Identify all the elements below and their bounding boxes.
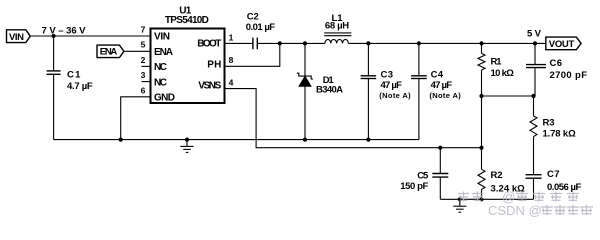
svg-text:5 V: 5 V xyxy=(527,28,542,39)
diode D1 B340A schottky xyxy=(297,43,343,139)
svg-text:7: 7 xyxy=(141,24,146,34)
svg-text:6: 6 xyxy=(141,85,146,95)
junction R2 bottom xyxy=(479,197,483,201)
ground rail xyxy=(54,139,419,141)
svg-text:150 pF: 150 pF xyxy=(400,181,428,192)
junction 5V / C6 top xyxy=(533,41,537,45)
wire BOOT pin 1 to C2 xyxy=(225,42,253,44)
watermark csdn line xyxy=(488,203,593,218)
junction C3 bottom on ground rail xyxy=(366,138,370,142)
net label VIN xyxy=(7,30,31,43)
svg-text:4: 4 xyxy=(229,78,234,88)
svg-text:2: 2 xyxy=(141,55,146,65)
svg-text:7 V – 36 V: 7 V – 36 V xyxy=(42,26,87,37)
pin 2 number and NC stub xyxy=(141,55,151,67)
junction R2 top xyxy=(479,146,483,150)
capacitor C5 xyxy=(400,148,448,200)
svg-text:C4: C4 xyxy=(431,69,444,80)
svg-text:0.056 µF: 0.056 µF xyxy=(547,182,581,193)
wire bottom ground line xyxy=(440,198,533,200)
junction C3 top xyxy=(366,41,370,45)
pin 3 number and NC stub xyxy=(141,70,151,82)
svg-text:R1: R1 xyxy=(491,57,503,68)
junction C4 top xyxy=(417,41,421,45)
junction pin6 wire on ground rail xyxy=(119,138,123,142)
svg-text:10 kΩ: 10 kΩ xyxy=(491,68,515,79)
IC U1 TPS5410D xyxy=(151,5,225,103)
svg-text:B340A: B340A xyxy=(316,84,343,95)
wire pin 6 GND to ground rail xyxy=(121,97,151,140)
svg-text:C2: C2 xyxy=(247,11,259,22)
svg-text:(Note A): (Note A) xyxy=(379,91,411,100)
wire VIN to pin 7 xyxy=(30,35,150,37)
wire ENA to pin 5 xyxy=(124,50,151,52)
svg-text:NC: NC xyxy=(154,62,167,73)
svg-text:PH: PH xyxy=(207,59,221,70)
node VIN input junction xyxy=(52,34,56,38)
svg-text:C6: C6 xyxy=(550,58,563,69)
junction C6 bottom / R3 top xyxy=(531,94,535,98)
watermark zhihu line xyxy=(458,190,579,205)
ground symbol main xyxy=(180,138,193,153)
svg-text:ENA: ENA xyxy=(100,47,118,58)
svg-text:5: 5 xyxy=(141,40,146,50)
wire C2 to L1 xyxy=(257,42,325,44)
svg-text:(Note A): (Note A) xyxy=(429,91,461,100)
resistor R3 1.78k xyxy=(530,96,576,174)
svg-text:TPS5410D: TPS5410D xyxy=(165,15,209,26)
svg-text:ENA: ENA xyxy=(154,47,173,58)
junction R1 top xyxy=(479,41,483,45)
svg-text:47 µF: 47 µF xyxy=(431,80,453,91)
svg-text:47 µF: 47 µF xyxy=(381,80,403,91)
svg-text:4.7 µF: 4.7 µF xyxy=(67,81,93,92)
svg-text:2700 pF: 2700 pF xyxy=(550,70,588,81)
svg-text:8: 8 xyxy=(229,55,234,65)
junction C5 top xyxy=(438,146,442,150)
capacitor C4 xyxy=(411,43,461,139)
svg-text:VIN: VIN xyxy=(9,32,24,43)
wire VSNS pin 4 to feedback node xyxy=(225,89,482,148)
junction D1 anode on ground rail xyxy=(303,138,307,142)
svg-text:0.01 µF: 0.01 µF xyxy=(246,22,276,33)
svg-text:BOOT: BOOT xyxy=(197,39,221,50)
net label VOUT xyxy=(546,37,581,50)
svg-text:1.78 kΩ: 1.78 kΩ xyxy=(543,129,577,140)
capacitor C3 xyxy=(361,43,411,139)
ground symbol feedback xyxy=(453,197,466,212)
net label ENA xyxy=(97,45,124,58)
junction D1 cathode at PH node xyxy=(303,41,307,45)
resistor R2 3.24k xyxy=(478,148,525,200)
wire FB node down to VSNS line xyxy=(481,96,483,148)
capacitor C6 xyxy=(526,43,587,96)
svg-text:68 µH: 68 µH xyxy=(325,21,349,32)
svg-text:R3: R3 xyxy=(543,117,555,128)
svg-text:VOUT: VOUT xyxy=(549,39,575,50)
svg-text:CSDN @: CSDN @ xyxy=(488,203,542,218)
capacitor C7 xyxy=(526,169,582,199)
junction C2/PH node xyxy=(278,41,282,45)
svg-text:C3: C3 xyxy=(381,69,394,80)
svg-text:VSNS: VSNS xyxy=(198,81,221,92)
wire feedback upper (R1 bottom to R3 top) xyxy=(482,95,536,97)
capacitor C1 xyxy=(47,36,93,140)
svg-text:GND: GND xyxy=(154,92,175,103)
svg-text:3: 3 xyxy=(141,70,146,80)
svg-text:1: 1 xyxy=(229,32,234,42)
svg-text:R2: R2 xyxy=(491,170,503,181)
svg-text:VIN: VIN xyxy=(154,32,170,43)
svg-text:NC: NC xyxy=(154,77,167,88)
inductor L1 68uH xyxy=(324,13,351,44)
resistor R1 10k xyxy=(478,43,514,96)
capacitor C2 xyxy=(246,11,276,49)
svg-text:C7: C7 xyxy=(547,169,560,180)
junction R1 bottom xyxy=(479,94,483,98)
wire L1 to VOUT xyxy=(348,42,545,44)
wire PH pin 8 riser xyxy=(225,43,280,66)
